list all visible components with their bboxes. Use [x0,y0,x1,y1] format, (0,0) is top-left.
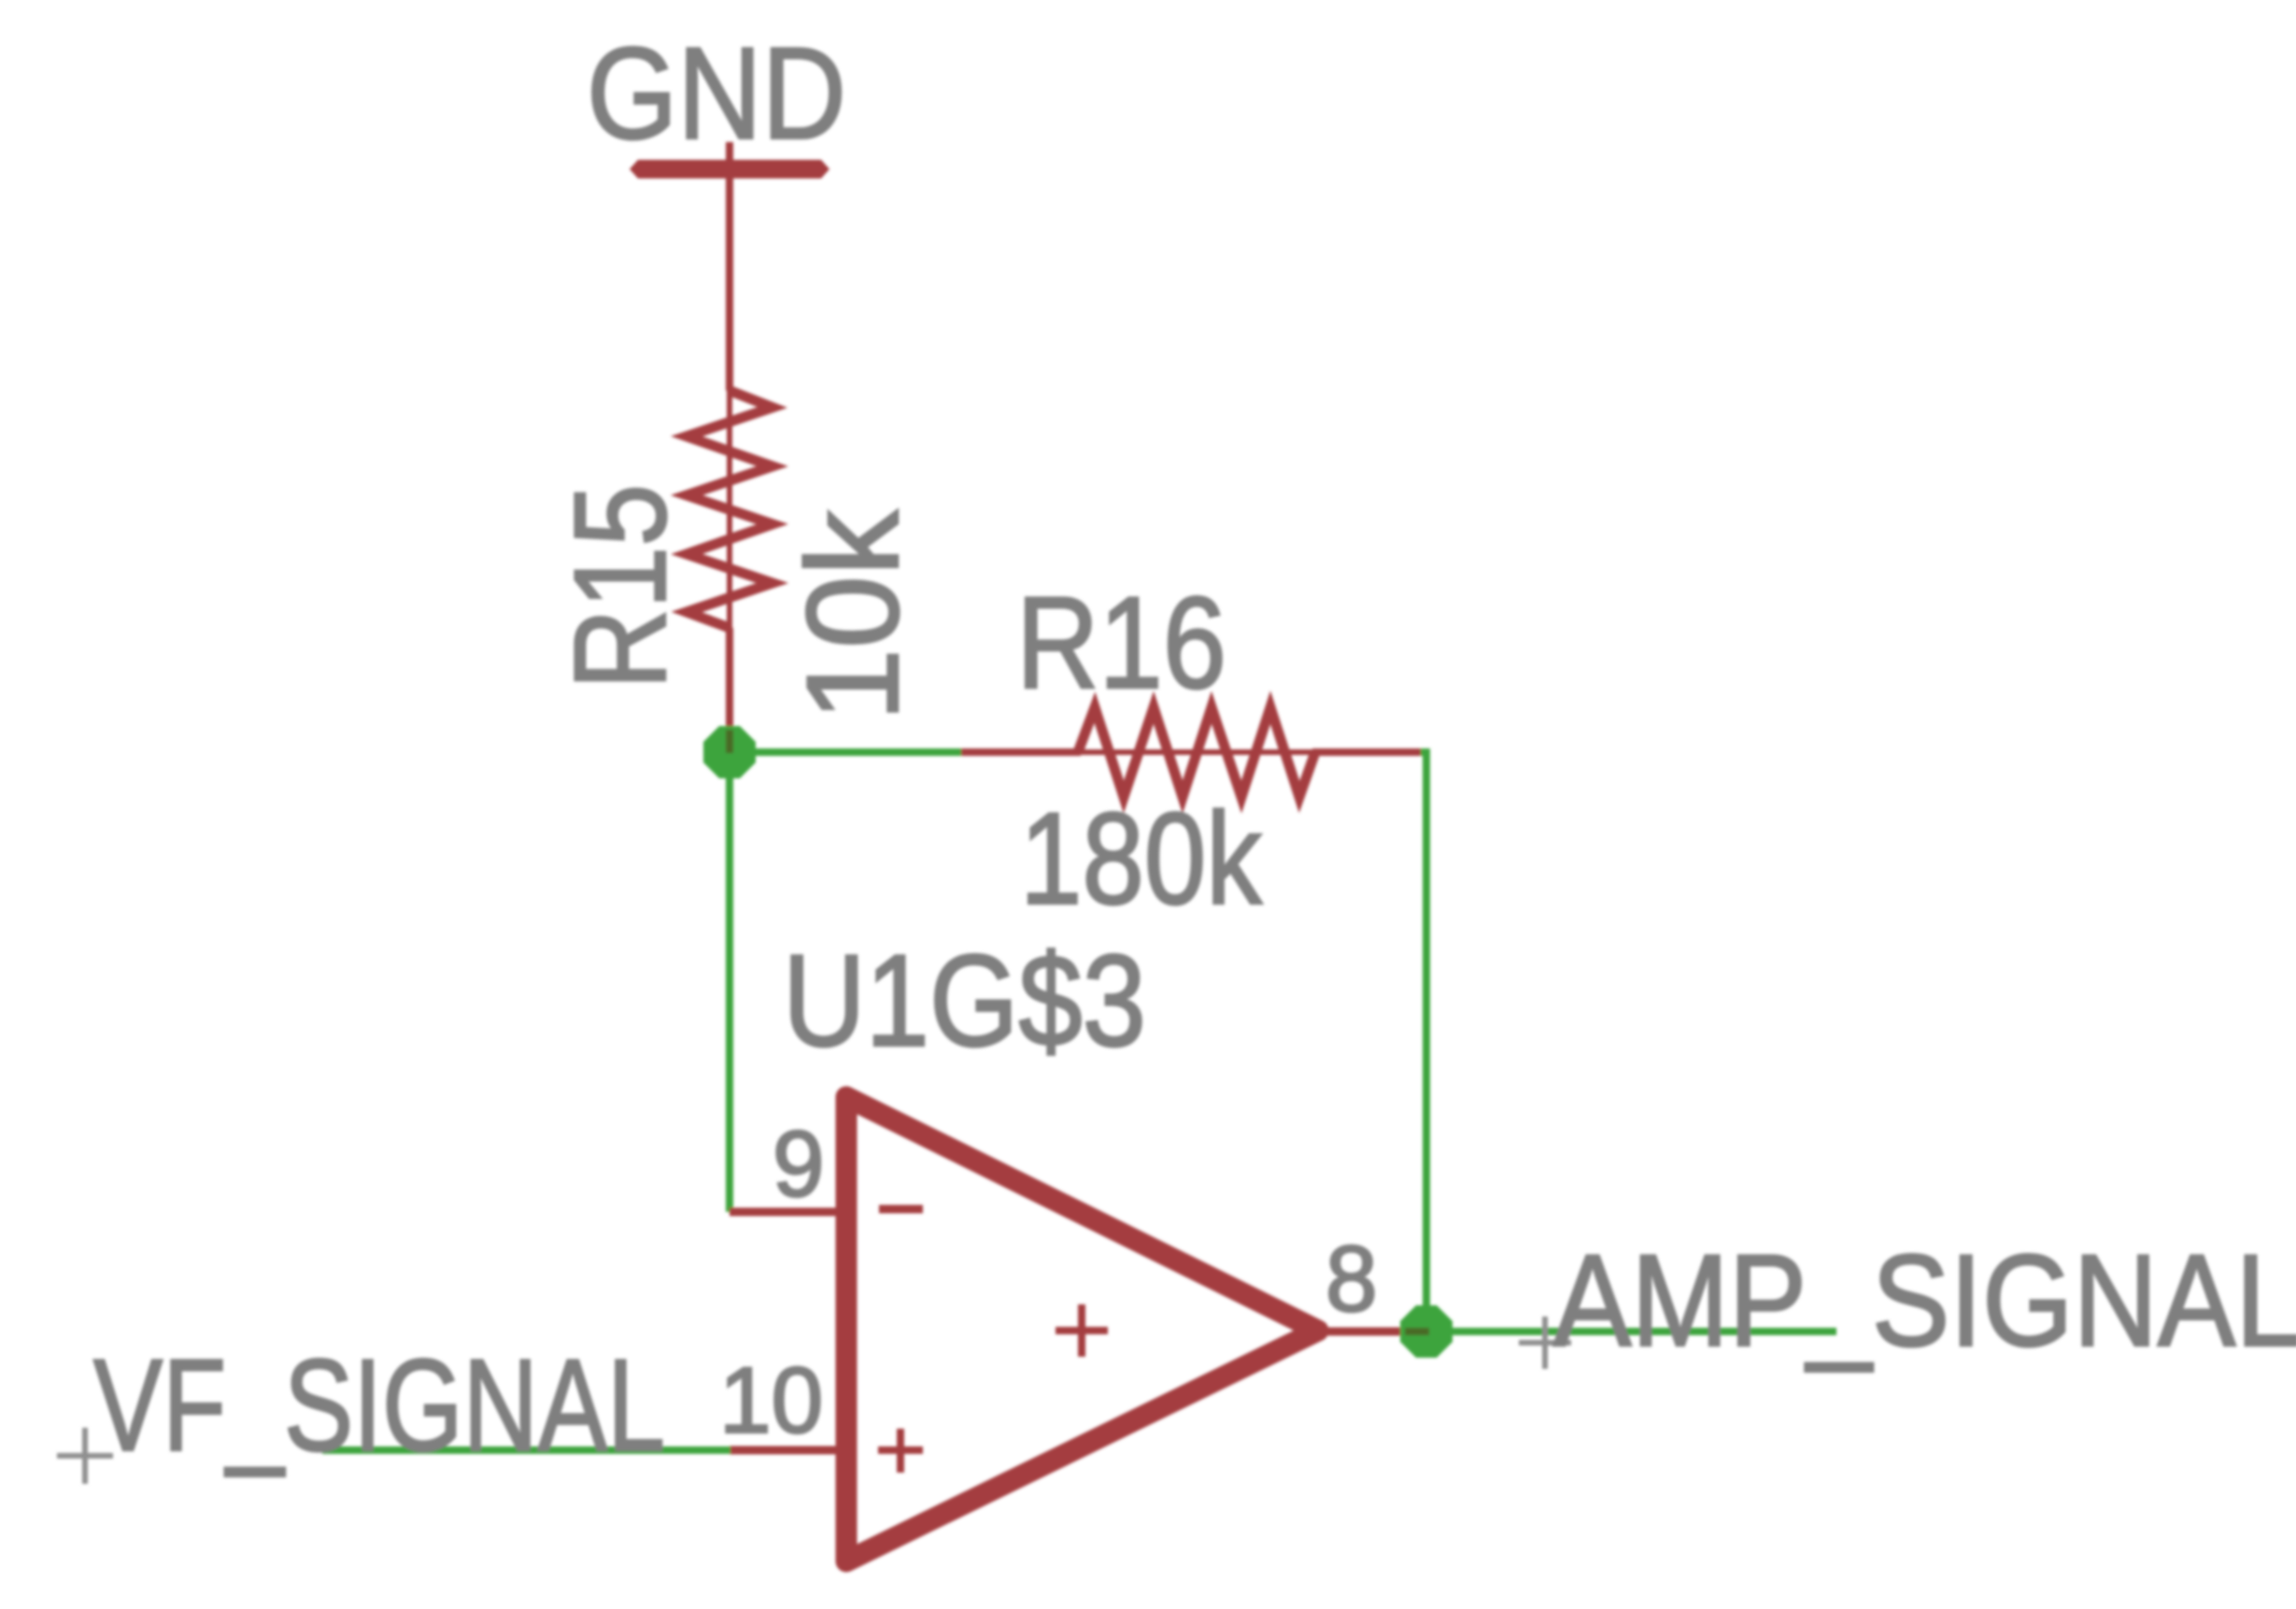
svg-text:GND: GND [587,20,846,166]
svg-text:R15: R15 [546,484,693,690]
svg-text:AMP_SIGNAL: AMP_SIGNAL [1553,1227,2296,1374]
svg-text:VF_SIGNAL: VF_SIGNAL [93,1331,665,1478]
svg-text:10k: 10k [779,509,926,721]
svg-text:180k: 180k [1020,785,1263,932]
svg-text:8: 8 [1325,1227,1378,1331]
svg-text:U1G$3: U1G$3 [783,927,1146,1074]
svg-text:R16: R16 [1016,569,1226,716]
svg-text:9: 9 [772,1112,825,1217]
svg-text:10: 10 [719,1348,823,1453]
